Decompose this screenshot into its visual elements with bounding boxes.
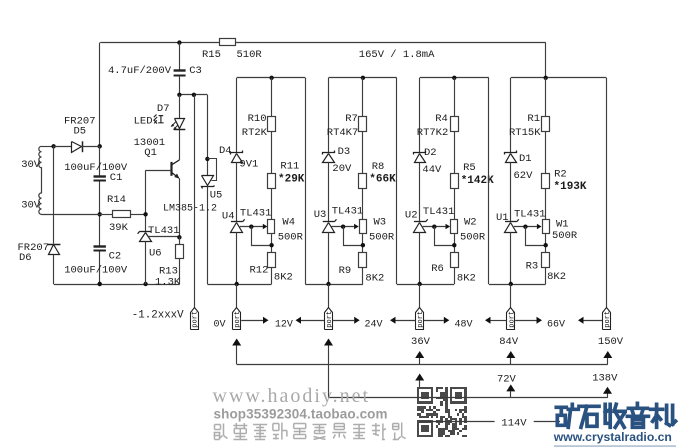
port 36V tap [416, 308, 424, 330]
port 84V tap [507, 308, 515, 330]
svg-text:R12: R12 [250, 265, 269, 277]
resistor R12 8K2 [268, 253, 276, 268]
wire stage3 center vertical [454, 78, 456, 117]
svg-text:1.3K: 1.3K [155, 277, 181, 289]
zener diode D4 9V1 [231, 151, 243, 155]
shunt regulator U1 TL431 [505, 221, 517, 223]
capacitor C1 100uF/100V [94, 175, 106, 177]
wire arrow 0V port to 12V [241, 320, 263, 322]
wire stage2 bottom [305, 284, 363, 286]
svg-text:C3: C3 [189, 65, 202, 77]
resistor R1 RT15K [542, 117, 550, 132]
svg-text:500R: 500R [369, 232, 395, 244]
logo underline band [554, 445, 676, 447]
svg-text:R4: R4 [435, 113, 448, 125]
shunt regulator U3 TL431 [323, 221, 335, 223]
svg-text:39K: 39K [109, 222, 129, 234]
wire row1 arrow 36V tap [415, 351, 424, 358]
svg-text:72V: 72V [497, 373, 517, 385]
wire row2 drop from 24V tap [328, 364, 330, 398]
wire 36V tap line through QR zone [419, 381, 421, 422]
svg-text:U4: U4 [222, 211, 235, 223]
svg-text:U5: U5 [210, 189, 223, 201]
wire arrow 84V port to 66V label [515, 320, 536, 322]
svg-text:shop35392304.taobao.com: shop35392304.taobao.com [214, 406, 388, 421]
svg-text:U3: U3 [314, 209, 327, 221]
svg-text:66V: 66V [547, 320, 565, 331]
wire stage1 center vertical [271, 78, 273, 117]
wire arrow 36V port to 48V label [424, 320, 444, 322]
svg-text:port: port [326, 311, 334, 328]
svg-text:0V: 0V [214, 320, 226, 331]
svg-text:165V / 1.8mA: 165V / 1.8mA [359, 49, 435, 61]
wire arrow 84V port to 48V label [485, 317, 491, 324]
resistor R13 1.3K [177, 235, 181, 239]
svg-text:D7: D7 [157, 103, 170, 115]
svg-text:100uF/100V: 100uF/100V [64, 265, 128, 277]
wire stage4 bottom [489, 284, 546, 286]
svg-text:RT7K2: RT7K2 [417, 127, 449, 139]
resistor R2 *193K [542, 174, 550, 189]
svg-text:W1: W1 [556, 219, 569, 231]
svg-text:44V: 44V [422, 164, 442, 176]
wire row2 riser 150V line [607, 393, 609, 398]
svg-text:48V: 48V [455, 320, 473, 331]
shunt regulator U4 TL431 [231, 221, 243, 223]
svg-text:R14: R14 [107, 194, 126, 206]
wire measure row2 [329, 397, 608, 399]
svg-text:510R: 510R [237, 49, 263, 61]
svg-text:LED: LED [134, 116, 153, 128]
shunt regulator U6 TL431 [140, 231, 152, 233]
port 0V tap [233, 308, 241, 330]
wire stage3 top [420, 77, 489, 79]
svg-text:R5: R5 [463, 162, 476, 174]
svg-text:D2: D2 [424, 147, 437, 159]
resistor R8 *66K [359, 174, 367, 189]
capacitor C3 4.7uF/200V [177, 40, 181, 44]
svg-text:500R: 500R [552, 230, 578, 242]
svg-text:port: port [234, 311, 242, 328]
wire stage1 top [237, 77, 306, 79]
wire stage1 right vertical [305, 78, 307, 284]
svg-text:R1: R1 [527, 113, 540, 125]
wire stage4 feedback [526, 227, 546, 246]
svg-text:R3: R3 [526, 260, 539, 272]
resistor R3 8K2 [542, 253, 550, 268]
potentiometer W2 500R [451, 220, 458, 234]
resistor R10 RT2K [268, 117, 276, 132]
diode D5 FR207 [51, 144, 55, 148]
wire stage2 center vertical [362, 78, 364, 117]
svg-text:RT2K: RT2K [242, 127, 268, 139]
wire stage4 top [511, 77, 607, 79]
svg-text:U2: U2 [405, 209, 418, 221]
svg-text:RT15K: RT15K [509, 127, 541, 139]
QR code [417, 387, 467, 439]
potentiometer W3 500R [360, 220, 367, 234]
LED D7 red [179, 95, 181, 119]
wire stage3 right vertical [488, 78, 490, 284]
svg-text:*29K: *29K [278, 173, 305, 185]
wire row1 arrow 24V tap [324, 339, 333, 346]
svg-text:C1: C1 [110, 172, 123, 184]
wire stage1 left vertical [236, 78, 238, 153]
svg-text:84V: 84V [499, 336, 519, 348]
wire stage3 bottom [397, 284, 455, 286]
resistor R15 510R [220, 39, 236, 46]
label hong red hanzi [154, 115, 164, 124]
svg-text:24V: 24V [365, 320, 383, 331]
wire stage4 left vertical [510, 78, 512, 153]
zener diode D2 44V [414, 151, 426, 155]
svg-text:R9: R9 [339, 265, 352, 277]
svg-text:C2: C2 [109, 251, 122, 263]
wire bottom rail left section [54, 284, 180, 286]
wire arrow 24V port to 12V [296, 317, 302, 324]
svg-text:9V1: 9V1 [239, 159, 258, 171]
svg-text:8K2: 8K2 [457, 272, 476, 284]
svg-text:150V: 150V [598, 336, 624, 348]
svg-text:500R: 500R [460, 232, 486, 244]
svg-text:www.crystalradio.cn: www.crystalradio.cn [553, 430, 672, 444]
svg-text:138V: 138V [592, 372, 618, 384]
svg-text:D6: D6 [19, 252, 32, 264]
svg-text:U1: U1 [496, 212, 509, 224]
wire stage3 port drop [419, 284, 421, 307]
wire stage1 bottom [207, 284, 271, 286]
wire row1 riser 150V [607, 358, 609, 364]
svg-text:port: port [417, 311, 425, 328]
svg-text:TL431: TL431 [148, 225, 180, 237]
svg-text:500R: 500R [278, 232, 304, 244]
svg-text:W4: W4 [282, 217, 295, 229]
svg-text:U6: U6 [149, 248, 162, 260]
svg-text:TL431: TL431 [423, 206, 455, 218]
wire row1 riser 0V [236, 346, 238, 365]
wire stage2 left vertical [328, 78, 330, 153]
svg-text:-1.2xxxV: -1.2xxxV [132, 310, 184, 322]
diode D6 FR207 [53, 146, 55, 243]
wire stage1 port drop [236, 284, 238, 307]
svg-text:62V: 62V [514, 170, 534, 182]
wire arrow 24V port to 24V label [333, 320, 354, 322]
svg-text:8K2: 8K2 [274, 271, 293, 283]
wire stage2 right vertical [396, 78, 398, 284]
svg-text:30V: 30V [21, 159, 41, 171]
potentiometer W1 500R [543, 220, 550, 234]
svg-text:*66K: *66K [369, 174, 396, 186]
svg-text:R2: R2 [554, 168, 567, 180]
transformer winding 30V+30V [42, 146, 54, 148]
svg-text:R7: R7 [345, 113, 358, 125]
svg-text:D3: D3 [338, 146, 351, 158]
wire measure row1 [237, 364, 608, 366]
wire stage2 feedback [344, 227, 363, 246]
svg-text:114V: 114V [501, 417, 527, 429]
svg-text:LM385-1.2: LM385-1.2 [163, 203, 217, 214]
svg-text:8K2: 8K2 [547, 271, 566, 283]
wire stage1 feedback [252, 227, 272, 246]
watermark scan qr hanzi line [214, 423, 406, 440]
resistor R4 RT7K2 [451, 117, 459, 132]
port -1.2xxxV [191, 308, 199, 330]
resistor R7 RT4K7 [359, 117, 367, 132]
wire row2 arrow 36V line [415, 374, 424, 381]
port 150V tap [603, 308, 611, 330]
wire stage4 port drop [510, 284, 512, 307]
wire measure row3 114V [420, 421, 495, 423]
wire stage4 right vertical [606, 78, 608, 308]
svg-text:RT4K7: RT4K7 [327, 127, 359, 139]
reference U5 LM385-1.2 [207, 95, 209, 176]
svg-text:R15: R15 [202, 49, 221, 61]
wire row2 arrow 84V line [506, 384, 515, 391]
svg-text:*193K: *193K [554, 181, 587, 193]
wire supply drop to stage4 center [545, 43, 547, 78]
wire stage3 feedback [435, 227, 455, 246]
resistor R6 8K2 [451, 253, 459, 268]
svg-text:30V: 30V [21, 200, 41, 212]
svg-text:Q1: Q1 [144, 147, 157, 159]
svg-text:D4: D4 [219, 145, 232, 157]
wire node below C3 [179, 94, 207, 96]
svg-text:D5: D5 [74, 125, 87, 137]
capacitor C2 100uF/100V [94, 245, 106, 247]
wire port A drop [194, 95, 196, 308]
resistor R14 39K [100, 214, 113, 216]
zener diode D1 62V [505, 151, 517, 155]
svg-text:W3: W3 [374, 217, 387, 229]
svg-text:TL431: TL431 [332, 206, 364, 218]
svg-text:www.haodiy.net: www.haodiy.net [213, 385, 371, 407]
shunt regulator U2 TL431 [414, 221, 426, 223]
svg-text:4.7uF/200V: 4.7uF/200V [108, 65, 172, 77]
svg-text:port: port [192, 311, 200, 328]
potentiometer W4 500R [268, 220, 275, 234]
svg-text:D1: D1 [519, 153, 532, 165]
zener diode D3 20V [323, 151, 335, 155]
transistor Q1 13001 [179, 130, 181, 160]
svg-text:*142K: *142K [461, 175, 494, 187]
svg-text:R10: R10 [248, 113, 267, 125]
wire stage4 center vertical [545, 78, 547, 117]
svg-text:R11: R11 [280, 161, 299, 173]
svg-text:port: port [508, 311, 516, 328]
resistor R5 *142K [451, 174, 459, 189]
wire 165V supply rail [100, 42, 219, 44]
wire positive rail vertical [99, 43, 101, 147]
svg-text:TL431: TL431 [514, 209, 546, 221]
wire arrow 150V port to 66V label [578, 317, 584, 324]
svg-text:20V: 20V [332, 163, 352, 175]
wire row1 arrow 84V tap [506, 351, 515, 358]
svg-text:12V: 12V [275, 320, 293, 331]
resistor R11 *29K [268, 174, 276, 189]
resistor R9 8K2 [359, 253, 367, 268]
wire stage3 left vertical [419, 78, 421, 153]
svg-text:TL431: TL431 [240, 207, 272, 219]
svg-text:36V: 36V [411, 336, 431, 348]
svg-text:R8: R8 [372, 161, 385, 173]
wire stage2 port drop [328, 284, 330, 307]
svg-text:port: port [604, 311, 612, 328]
logo crystalradio hanzi [556, 403, 675, 427]
wire arrow 36V port to 24V label [390, 317, 396, 324]
svg-text:R6: R6 [431, 263, 444, 275]
wire stage2 top [329, 77, 397, 79]
svg-text:W2: W2 [464, 217, 477, 229]
svg-text:8K2: 8K2 [365, 272, 384, 284]
port 24V tap [325, 308, 333, 330]
